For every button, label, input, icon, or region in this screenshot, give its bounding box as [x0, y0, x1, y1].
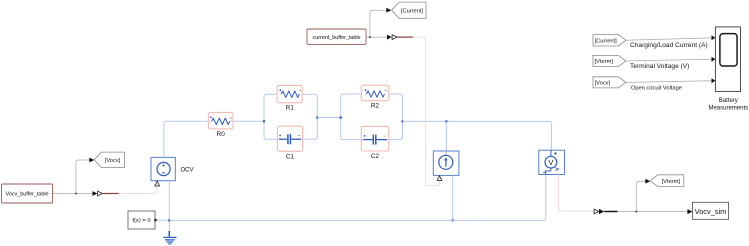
converter Simulink-PS (top)	[387, 35, 413, 40]
wire OCV positive up and right to R0	[164, 121, 208, 157]
wire to current source positive	[445, 121, 447, 150]
from tag [Current]	[593, 35, 626, 47]
svg-text:current_buffer_table: current_buffer_table	[313, 35, 361, 41]
wire bottom rail	[169, 175, 546, 221]
wire solver to ground node	[157, 219, 170, 221]
from tag [Vocv]	[593, 77, 626, 88]
wire RC1 to RC2	[317, 117, 340, 119]
wire to Vocv goto tag	[76, 158, 94, 194]
wire through R1 row	[277, 93, 302, 95]
wire Current to scope	[626, 35, 716, 49]
junction bottom rail	[451, 219, 454, 222]
block current_buffer_table	[307, 29, 366, 44]
svg-text:C2: C2	[371, 153, 380, 160]
resistor R2	[361, 85, 389, 109]
voltage sensor U3	[539, 150, 565, 174]
goto tag [Current]	[392, 2, 427, 18]
svg-text:R2: R2	[371, 102, 380, 109]
converter PS-Simulink (right)	[594, 209, 617, 214]
goto tag [Vocv]	[94, 152, 124, 167]
port triangle current source control input	[437, 176, 442, 181]
port triangle OCV control input	[155, 181, 160, 186]
wire Vterm to scope	[626, 57, 716, 70]
voltage source OCV U1	[151, 157, 194, 180]
svg-text:[Vterm]: [Vterm]	[662, 179, 681, 185]
svg-text:Measurements: Measurements	[708, 105, 748, 111]
current source U2	[433, 151, 459, 175]
block Vocv_buffer_table	[2, 184, 53, 203]
resistor R0	[208, 112, 233, 137]
svg-text:C1: C1	[286, 153, 295, 160]
svg-text:[Vterm]: [Vterm]	[595, 59, 614, 65]
goto tag [Vterm]	[650, 175, 684, 187]
physical signal wire to current source control port	[413, 37, 440, 186]
capacitor C2	[361, 126, 389, 160]
svg-text:[Vocv]: [Vocv]	[105, 158, 121, 164]
junction node Vocv	[75, 192, 77, 194]
node right rail RC2	[389, 94, 404, 140]
junction node Vterm	[635, 210, 637, 212]
wire through C2 row	[361, 139, 389, 141]
wire current source negative to bottom rail	[452, 176, 454, 221]
wire Vocv to scope	[626, 78, 716, 91]
wire current_buffer_table output	[366, 36, 387, 38]
svg-text:Open circuit Voltage: Open circuit Voltage	[631, 85, 682, 91]
svg-text:R0: R0	[217, 131, 226, 138]
node right rail RC1	[302, 94, 318, 139]
wire to Current goto tag	[370, 8, 391, 37]
junction node current	[369, 36, 371, 38]
physical signal wire sensor output	[559, 175, 594, 211]
wire converter to Vocv_sim	[618, 209, 693, 214]
converter Simulink-PS (left)	[93, 191, 119, 196]
svg-text:Vocv_sim: Vocv_sim	[695, 207, 727, 216]
from tag [Vterm]	[593, 55, 626, 66]
svg-text:R1: R1	[286, 105, 295, 112]
junction current source top	[445, 120, 448, 123]
svg-text:[Current]: [Current]	[401, 8, 424, 14]
wire through R2 row	[361, 93, 389, 95]
wire Vocv_buffer_table output	[53, 193, 93, 195]
svg-text:Charging/Load Current (A): Charging/Load Current (A)	[630, 42, 708, 49]
svg-text:[Current]: [Current]	[595, 38, 618, 44]
wire through C1 row	[277, 138, 302, 140]
svg-text:V: V	[548, 158, 553, 167]
block Vocv_sim	[693, 202, 729, 219]
block f(x)=0 solver configuration	[128, 211, 157, 229]
scope Battery Measurements	[708, 27, 748, 112]
wire R0 to RC pair 1	[233, 120, 264, 122]
wire to Vterm goto tag	[636, 179, 650, 212]
node left rail RC1	[263, 94, 278, 139]
svg-text:[Vocv]: [Vocv]	[595, 81, 611, 87]
svg-text:Vocv_buffer_table: Vocv_buffer_table	[6, 191, 49, 197]
physical signal wire to OCV control port	[119, 186, 157, 193]
wire OCV negative to ground	[168, 181, 170, 232]
svg-text:Terminal Voltage (V): Terminal Voltage (V)	[630, 63, 689, 70]
junction ground node	[168, 219, 171, 222]
resistor R1	[277, 85, 302, 111]
capacitor C1	[277, 126, 302, 160]
svg-text:Battery: Battery	[719, 98, 738, 104]
svg-text:OCV: OCV	[181, 167, 194, 173]
wire main rail to voltage sensor	[403, 121, 552, 149]
node left rail RC2	[339, 94, 361, 140]
ground symbol	[163, 231, 176, 244]
svg-text:f(x) = 0: f(x) = 0	[132, 218, 150, 224]
